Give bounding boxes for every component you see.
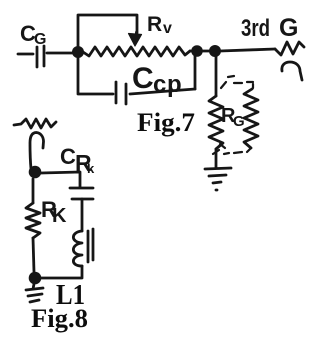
label CCP [132, 62, 182, 98]
label RK [41, 197, 67, 227]
svg-text:R: R [147, 13, 162, 36]
wire (RG branch) [215, 56, 218, 96]
svg-text:c: c [153, 71, 166, 98]
wire to ground [215, 149, 218, 167]
svg-text:Fig.8: Fig.8 [31, 304, 88, 333]
node A (junction dot left) [72, 46, 84, 58]
wire (bottom of Fig.8) [41, 266, 82, 278]
capacitor CG [18, 46, 72, 67]
label 3rd G [241, 14, 298, 42]
svg-text:p: p [167, 71, 182, 98]
label RV [147, 13, 172, 37]
svg-text:3rd: 3rd [241, 15, 270, 42]
wire (CCP branch right) [194, 56, 197, 89]
wire to inductor [81, 199, 84, 231]
svg-text:C: C [60, 144, 76, 169]
wire to capacitor CRk [41, 172, 80, 187]
resistor RG (zigzag) [209, 96, 223, 149]
ground (Fig.8) [26, 284, 43, 302]
node D (junction dot) [29, 166, 42, 179]
capacitor CG label [20, 21, 46, 48]
dashed link bottom [213, 144, 251, 154]
svg-text:K: K [52, 205, 67, 227]
resistor squiggle (Fig.8 top) [14, 119, 56, 128]
grid hook (Fig.8) [30, 133, 44, 170]
wiper arrow of RV [129, 32, 142, 46]
capacitor CCP [116, 82, 195, 104]
resistor (dashed box, right zigzag) [244, 89, 258, 148]
svg-text:k: k [87, 161, 95, 176]
resistor RK (zigzag) [26, 203, 40, 238]
dashed link top [221, 76, 253, 88]
resistor RK branch wire [32, 179, 35, 203]
capacitor CRk plates [70, 188, 93, 199]
label CRk [60, 144, 95, 176]
grid-cap arc [282, 62, 302, 80]
svg-text:G: G [233, 113, 245, 130]
inductor L1 [73, 231, 82, 266]
core lines [88, 229, 93, 262]
wire to bottom node [33, 238, 34, 272]
svg-text:Fig.7: Fig.7 [137, 108, 195, 137]
resistor RV (zigzag) [83, 47, 190, 56]
node B (junction dot) [191, 45, 203, 57]
node E (junction dot) [29, 272, 42, 285]
wire (CCP branch left) [78, 57, 113, 94]
svg-text:v: v [163, 20, 172, 37]
ground (Fig.7) [205, 168, 231, 190]
node C (junction dot) [209, 45, 221, 57]
resistor squiggle at 3rd G [275, 42, 304, 55]
wire to 3rd G [190, 49, 275, 51]
svg-text:G: G [279, 14, 298, 42]
label RG [221, 105, 245, 130]
wire (top loop of RV) [78, 15, 137, 49]
svg-text:C: C [132, 62, 154, 95]
